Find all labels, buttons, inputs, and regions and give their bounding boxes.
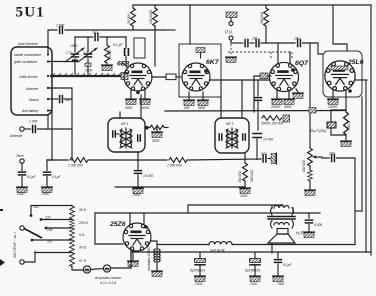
- terre capacitor 0.1: [21, 163, 23, 170]
- ground osc resistor: [102, 65, 113, 70]
- tone capacitor 0.1: [277, 253, 279, 258]
- wire antenna cap to junction: [38, 128, 73, 130]
- volume potentiometer 500000: [308, 148, 313, 166]
- MF2 secondary coil: [236, 129, 237, 147]
- ground terre: [17, 187, 28, 192]
- IF transformer MF2: [215, 118, 249, 153]
- output tube 25L6: [325, 61, 355, 91]
- 6E8 grid stub: [123, 63, 128, 68]
- 25L6 screen wire right: [355, 79, 367, 81]
- junction antenna vertical: [71, 129, 73, 160]
- MF1 primary tuning cap: [113, 131, 116, 137]
- oscillator shield box: [134, 38, 145, 58]
- converter tube 6E8: [124, 63, 152, 91]
- wire 6E8 plate to 6K7 grid: [152, 76, 167, 78]
- oscillator variable capacitor CV1: [74, 37, 76, 52]
- 6E8 center dot: [136, 91, 140, 95]
- P.U. dashed shield drop: [230, 40, 232, 56]
- ground field coil: [152, 271, 163, 276]
- output transformer primary: [274, 206, 289, 209]
- AF coupling cap 200: [332, 155, 335, 162]
- capacitor 1000 antenna series: [24, 128, 30, 130]
- P.U. terminal 2: [229, 36, 233, 40]
- contact 220: [40, 218, 43, 221]
- contact 230: [30, 214, 33, 217]
- MF2 B+ lead: [241, 80, 243, 118]
- filter choke: [209, 242, 232, 245]
- ground AVC series: [271, 153, 276, 164]
- mains terminal 1: [20, 226, 24, 230]
- IF transformer MF1: [108, 118, 145, 152]
- filter electrolytic 1: [199, 253, 201, 258]
- wire to 25L6 grid: [303, 43, 324, 54]
- IF amplifier shield box 6K7: [179, 44, 221, 97]
- margin mark: [0, 259, 5, 266]
- wire y30 right end: [164, 29, 175, 31]
- grid connector box on 6E8: [121, 73, 128, 80]
- capacitor 1000 (band mod): [60, 27, 63, 34]
- detector shield dashed line: [228, 51, 292, 53]
- 6Q7 grid leads up: [277, 43, 279, 64]
- 6Q7 cathode ground right: [296, 89, 298, 92]
- hatched tuning line (grille accord): [50, 75, 122, 77]
- ground AVC cap: [42, 187, 53, 192]
- AVC capacitor 10000: [253, 133, 262, 135]
- contact 110: [31, 239, 34, 242]
- MF2 primary coil: [227, 129, 228, 147]
- terminal strip block (left): [11, 47, 52, 115]
- top supply bus: [133, 4, 371, 6]
- detector tube 6Q7: [269, 62, 298, 91]
- heater return bus: [131, 251, 371, 253]
- MF2 secondary cap: [243, 134, 246, 140]
- AVC resistor 1: [70, 158, 88, 163]
- diode load resistor: [262, 116, 281, 121]
- tuning variable capacitor CV2: [87, 37, 89, 52]
- IF tube 6K7: [182, 63, 210, 91]
- lead 100000 resistor to 6E8: [154, 26, 156, 66]
- 6Q7 diode plate box: [260, 73, 268, 79]
- 25L6 plate hatch: [331, 66, 348, 70]
- wire screen connector: [355, 210, 362, 212]
- MF1 lead left: [119, 112, 121, 118]
- 25L6 ground: [332, 90, 334, 99]
- CV2 padder: [85, 63, 91, 66]
- MF1 secondary coil: [130, 129, 131, 147]
- dropping resistor 100000: [154, 5, 156, 8]
- capacitor 10000: [135, 171, 142, 174]
- wire masse row to cap: [48, 98, 58, 100]
- MF1 coil lattice: [120, 130, 132, 148]
- wire y30 to dropping resistors: [65, 29, 164, 31]
- AVC bus: [47, 159, 68, 161]
- field coil excitation: [154, 249, 156, 262]
- MF2 coil lattice: [226, 130, 238, 148]
- switch lever: [24, 229, 42, 238]
- dropping resistor 20000: [132, 5, 134, 8]
- speaker return: [271, 243, 273, 253]
- dial lamp 1: [83, 266, 90, 273]
- output transformer secondary: [274, 223, 289, 226]
- wire grille oscillatrice: [48, 59, 75, 62]
- margin tick: [0, 209, 3, 211]
- tone cap 4000 on B+: [308, 213, 310, 218]
- speaker: [277, 229, 288, 235]
- coupling resistor box: [166, 74, 176, 80]
- MF2 primary lead from 6K7 plate: [220, 80, 222, 118]
- ground 25Z6: [128, 261, 139, 266]
- HT line to output transformer: [188, 204, 283, 206]
- terre terminal: [20, 159, 24, 163]
- grid resistor 25000: [106, 37, 108, 45]
- rectifier tube 25Z6: [123, 223, 151, 251]
- 25Z6 cathode leads down: [130, 249, 132, 268]
- P.U. shield box: [226, 12, 237, 18]
- B+ raw bus: [157, 244, 209, 246]
- MF1 secondary tuning cap: [138, 135, 141, 141]
- antenna input terminal: [20, 127, 24, 131]
- wire 6K7 plate to detector: [210, 79, 271, 81]
- CV1 trimmer: [72, 60, 78, 63]
- pot wiper arrow: [315, 156, 322, 158]
- wire diode to MF2 secondary: [254, 76, 260, 112]
- dial lamp 2: [103, 265, 110, 272]
- MF1 lead to 6E8 plate: [140, 95, 142, 118]
- heater bus chassis hatch: [309, 108, 316, 114]
- ground MF2 resistor: [240, 188, 251, 193]
- cathode bypass electrolytic 50uF: [331, 110, 346, 122]
- P.U. terminal 1: [229, 22, 233, 26]
- MF1 output lead with resistor: [145, 126, 148, 129]
- wire osc line y37: [75, 36, 93, 38]
- 25Z6 output right: [151, 241, 158, 249]
- diode filter cap: [257, 80, 259, 96]
- right border wire: [370, 5, 372, 255]
- output tube 25L6 shield box: [323, 51, 362, 97]
- pot ground: [309, 181, 311, 189]
- AVC decoupling cap 0.1: [46, 160, 48, 171]
- 25L6 grid feed: [333, 5, 347, 51]
- wire masse cap to antenna vertical: [64, 98, 72, 100]
- wire antenne row: [48, 88, 72, 129]
- tap wires: [31, 206, 72, 216]
- wire box bottom stub: [47, 115, 49, 129]
- capacitor det 1: [245, 40, 248, 47]
- B- return right: [361, 97, 363, 211]
- ground P.U.: [226, 57, 237, 62]
- 25Z6 plate leads: [129, 213, 131, 224]
- mains terminal 2: [20, 260, 24, 264]
- filter electrolytic 2: [254, 253, 256, 258]
- wire band modulatrice up: [48, 30, 57, 55]
- MF2 grid resistor 300000: [244, 153, 246, 163]
- contact 160: [45, 227, 48, 230]
- B+ line: [95, 212, 320, 214]
- 6E8 cathode grounds: [130, 90, 132, 99]
- MF1 primary coil: [121, 129, 122, 147]
- plate resistor 200000: [265, 5, 267, 8]
- wire lamps to rectifier: [111, 267, 131, 269]
- coupling capacitor to output grid: [298, 40, 301, 47]
- MF2 primary cap: [219, 134, 222, 140]
- transformer leads: [271, 205, 273, 208]
- capacitor det 2: [256, 40, 259, 47]
- AF coupling line y43: [230, 40, 232, 43]
- wire AF to output stage: [337, 158, 356, 245]
- ballast resistor chain: [71, 205, 73, 208]
- wire AF line to volume drop: [309, 43, 311, 148]
- 6Q7 grounds: [276, 90, 278, 99]
- ground MF1 cap: [133, 188, 144, 193]
- wire plate supply 6K7: [189, 5, 191, 44]
- wire anti-fading down to AVC bus: [47, 111, 52, 161]
- ground cathode: [341, 141, 352, 146]
- capacitor 500 on AVC line: [263, 155, 266, 162]
- capacitor masse decoupling: [60, 96, 63, 103]
- AVC resistor 2: [169, 158, 187, 163]
- 6K7 grounds: [188, 92, 190, 100]
- MF1 bottom lead to AVC cap: [137, 152, 139, 169]
- transformer core: [268, 216, 295, 218]
- shield cap hatch: [196, 48, 205, 53]
- heater bus: [165, 110, 346, 113]
- ground bus mid: [115, 186, 245, 188]
- capacitor 750: [95, 34, 98, 41]
- 25L6 cathode resistor: [345, 90, 347, 112]
